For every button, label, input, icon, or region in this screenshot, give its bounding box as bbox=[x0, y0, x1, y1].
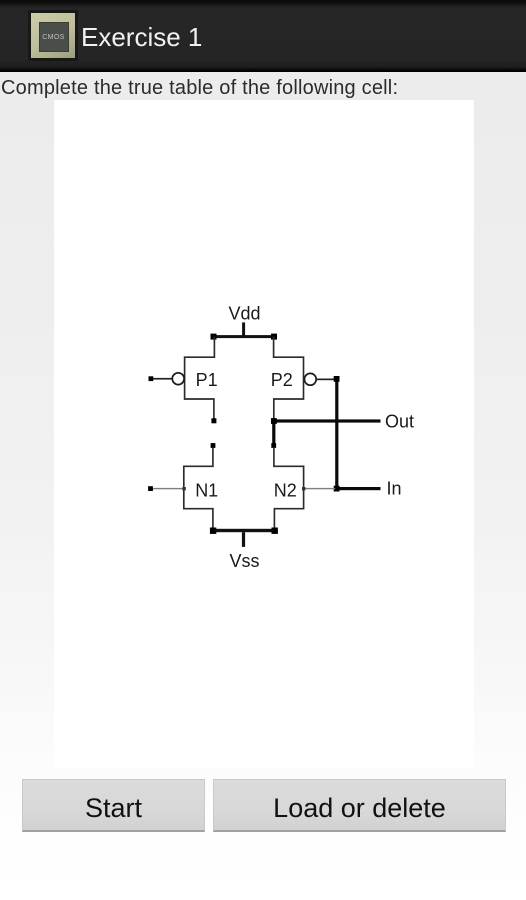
terminal P1 drain bbox=[211, 418, 216, 423]
Vss label bbox=[230, 551, 260, 571]
wire P1 gate bbox=[151, 378, 173, 380]
title text bbox=[81, 24, 202, 50]
label In bbox=[387, 479, 402, 499]
junction Vss-left bbox=[210, 528, 216, 534]
wire Out down to N2 drain bbox=[272, 421, 275, 446]
svg-text:Out: Out bbox=[385, 412, 414, 432]
instruction text bbox=[1, 76, 398, 100]
terminal P1 gate stub bbox=[149, 376, 154, 381]
junction In bbox=[334, 486, 340, 492]
svg-text:Vss: Vss bbox=[230, 551, 260, 571]
transistor N1 bbox=[184, 448, 213, 530]
wire Out horizontal bbox=[272, 419, 380, 422]
transistor N2 bbox=[274, 448, 304, 530]
terminal N2 drain bbox=[271, 443, 276, 448]
junction N1 gate-side bbox=[182, 487, 185, 490]
action bar bbox=[0, 0, 526, 72]
wire Vdd rail bbox=[213, 335, 275, 338]
app icon (CMOS chip) bbox=[28, 10, 78, 61]
wire Vss stub bbox=[242, 532, 245, 547]
node Out net bbox=[272, 419, 380, 445]
node In net bbox=[335, 379, 380, 490]
label P2 bbox=[271, 370, 293, 390]
svg-text:Vdd: Vdd bbox=[229, 304, 261, 324]
button Load or delete bbox=[213, 779, 506, 832]
svg-text:N2: N2 bbox=[274, 480, 297, 500]
label N2 bbox=[274, 480, 297, 500]
label Out bbox=[385, 412, 414, 432]
svg-text:In: In bbox=[387, 479, 402, 499]
button Start bbox=[22, 779, 205, 832]
terminal N1 gate stub bbox=[148, 486, 153, 491]
gate bubble P2 bbox=[304, 373, 316, 385]
Vdd label bbox=[229, 304, 261, 324]
wire P2 gate bbox=[316, 379, 336, 381]
label N1 bbox=[195, 480, 218, 500]
wire N1 gate bbox=[151, 488, 184, 489]
svg-text:P1: P1 bbox=[196, 370, 218, 390]
transistor P1 bbox=[185, 337, 215, 419]
white drawing canvas bbox=[54, 100, 474, 768]
svg-text:P2: P2 bbox=[271, 370, 293, 390]
label P1 bbox=[196, 370, 218, 390]
wire Vdd stub bbox=[242, 322, 245, 338]
wire In horizontal bbox=[335, 487, 380, 490]
wire In vertical bbox=[335, 379, 338, 489]
svg-text:N1: N1 bbox=[195, 480, 218, 500]
terminal N1 drain bbox=[211, 443, 216, 448]
junction Out bbox=[271, 418, 277, 424]
junction Vdd-left bbox=[211, 334, 217, 340]
gate bubble P1 bbox=[172, 373, 184, 385]
wire Vss rail bbox=[213, 529, 276, 532]
junction Vss-right bbox=[272, 528, 278, 534]
junction Vdd-right bbox=[271, 334, 277, 340]
junction N2 gate-side bbox=[302, 487, 305, 490]
wire N2 gate bbox=[304, 488, 336, 489]
transistor P2 bbox=[274, 337, 304, 419]
junction P2 gate bbox=[334, 376, 340, 382]
